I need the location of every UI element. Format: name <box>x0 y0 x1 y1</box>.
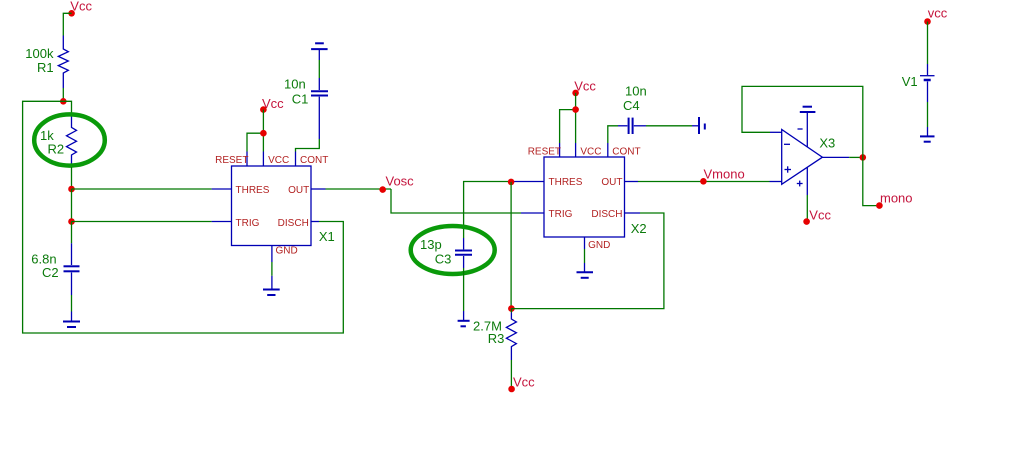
svg-text:R1: R1 <box>37 60 54 75</box>
wire node A loop to DISCH X1 <box>23 101 344 333</box>
ground right of C4 (sideways) <box>692 117 705 134</box>
battery V1 <box>920 64 935 102</box>
wire vcc to V1 <box>927 22 929 65</box>
node TRIG X1 <box>68 218 75 225</box>
wire node A to R2 <box>63 101 71 115</box>
ground at X2 <box>577 272 594 278</box>
feedback wire output to minus input <box>742 86 863 157</box>
ground at C2 <box>63 312 80 328</box>
ground below C3 <box>458 311 470 326</box>
X1 pin GND wire and ground <box>271 246 273 290</box>
wire THRES node down to R3 node <box>510 182 512 309</box>
annotation ellipse around C3 <box>411 226 495 274</box>
wire C2 to ground <box>71 295 73 312</box>
net label vcc (V1) <box>924 6 948 25</box>
svg-text:VCC: VCC <box>580 147 601 158</box>
svg-text:R2: R2 <box>48 142 65 157</box>
net label Vcc (X2) <box>572 79 596 97</box>
svg-text:RESET: RESET <box>215 155 248 166</box>
wire ground to C1 <box>318 60 320 78</box>
svg-text:13p: 13p <box>420 237 442 252</box>
svg-text:Vcc: Vcc <box>513 375 535 390</box>
svg-text:X1: X1 <box>319 229 335 244</box>
svg-text:THRES: THRES <box>236 185 270 196</box>
node THRES X2 <box>508 179 515 186</box>
output node <box>860 154 867 161</box>
wire output to mono <box>863 157 880 205</box>
ground above C1 (inverted) <box>311 43 328 60</box>
wire TRIG node to C2 <box>71 222 73 244</box>
wire C1 to X1 CONT <box>296 139 320 152</box>
svg-text:OUT: OUT <box>601 177 622 188</box>
ground at X1 <box>263 290 280 296</box>
svg-text:Vosc: Vosc <box>386 174 415 189</box>
svg-text:10n: 10n <box>284 77 306 92</box>
svg-text:X2: X2 <box>631 221 647 236</box>
X2 pin VCC <box>575 143 577 157</box>
svg-text:R3: R3 <box>488 331 505 346</box>
net label mono <box>876 191 912 209</box>
X2 pin RESET <box>559 143 561 157</box>
svg-text:Vcc: Vcc <box>809 208 831 223</box>
resistor R2 <box>67 116 77 168</box>
X1 pin DISCH stub <box>311 221 319 223</box>
op-amp bottom power pin <box>806 167 808 221</box>
svg-text:CONT: CONT <box>612 147 640 158</box>
X2 pin GND wire <box>584 237 586 272</box>
X1 pin VCC <box>262 152 264 167</box>
X2 pin CONT <box>607 143 609 157</box>
resistor R1 <box>58 36 68 89</box>
op-amp top power pin <box>806 112 808 147</box>
wire X2 DISCH loop to node <box>511 213 664 309</box>
net label Vcc (R3) <box>508 375 535 393</box>
net label Vcc (top left) <box>68 0 92 17</box>
svg-text:OUT: OUT <box>288 185 309 196</box>
wire X2 OUT to Vmono <box>625 181 782 183</box>
wire X1 OUT to Vosc <box>311 188 391 190</box>
junction X1 vcc <box>260 130 267 137</box>
svg-text:VCC: VCC <box>268 155 289 166</box>
junction X2 vcc <box>572 106 579 113</box>
node THRES X1 <box>68 186 75 193</box>
capacitor C1 <box>311 78 328 139</box>
svg-text:GND: GND <box>276 246 298 257</box>
wire Vcc to R1 <box>63 13 71 35</box>
capacitor C4 <box>618 118 646 134</box>
svg-text:DISCH: DISCH <box>591 209 622 220</box>
resistor R3 <box>506 309 516 389</box>
svg-text:100k: 100k <box>25 46 54 61</box>
svg-text:vcc: vcc <box>928 6 948 21</box>
wire X2 THRES to node <box>464 182 544 239</box>
node R3 top <box>508 305 515 312</box>
ground above op-amp (inverted) <box>800 107 816 112</box>
wire C4 to ground <box>646 125 692 127</box>
net label Vcc (op-amp) <box>803 208 831 225</box>
wire THRES node to TRIG node <box>71 189 73 222</box>
net label Vmono <box>700 167 745 185</box>
net label Vcc (X1) <box>260 96 284 113</box>
svg-text:CONT: CONT <box>300 155 328 166</box>
op-amp minus input marker <box>784 143 790 145</box>
capacitor C2 <box>64 243 80 295</box>
svg-text:C4: C4 <box>623 98 640 113</box>
X1 pin CONT <box>295 152 297 167</box>
svg-text:GND: GND <box>588 240 610 251</box>
op-amp X3 <box>782 130 823 185</box>
svg-text:TRIG: TRIG <box>236 218 260 229</box>
wire Vosc to X2 TRIG <box>391 189 544 213</box>
wire TRIG node to X1 TRIG <box>72 221 232 223</box>
capacitor C3 <box>455 238 472 268</box>
svg-text:V1: V1 <box>902 74 918 89</box>
op-amp plus input marker <box>785 166 792 172</box>
wire THRES node to X1 THRES <box>72 188 232 190</box>
wire C3 to ground <box>463 268 465 311</box>
svg-text:C3: C3 <box>435 252 452 267</box>
svg-text:Vmono: Vmono <box>704 167 745 182</box>
svg-text:X3: X3 <box>819 136 835 151</box>
op-amp output wire <box>822 156 862 158</box>
svg-text:TRIG: TRIG <box>549 209 573 220</box>
svg-text:C1: C1 <box>292 92 309 107</box>
wire Vcc to X1 RESET and VCC <box>247 110 263 152</box>
ground below V1 <box>920 127 935 142</box>
X1 pin RESET <box>246 152 248 167</box>
annotation ellipse around R2 <box>34 114 105 165</box>
wire V1 to ground <box>927 102 929 127</box>
op-amp bottom power plus marker <box>797 181 803 187</box>
svg-text:RESET: RESET <box>528 147 561 158</box>
net label Vosc <box>379 174 414 193</box>
IC X1 body <box>232 166 312 246</box>
svg-text:C2: C2 <box>42 265 59 280</box>
wire R1 to node A <box>62 88 64 101</box>
wire Vcc to X2 RESET and VCC <box>560 93 576 143</box>
wire C4 to X2 CONT <box>608 126 618 143</box>
svg-text:DISCH: DISCH <box>278 218 309 229</box>
svg-text:mono: mono <box>880 191 913 206</box>
IC X2 body <box>544 157 625 237</box>
op-amp top power minus marker <box>798 128 803 130</box>
svg-text:THRES: THRES <box>549 177 583 188</box>
svg-text:10n: 10n <box>625 84 647 99</box>
wire R2 to THRES node <box>71 167 73 189</box>
node A <box>60 98 67 105</box>
